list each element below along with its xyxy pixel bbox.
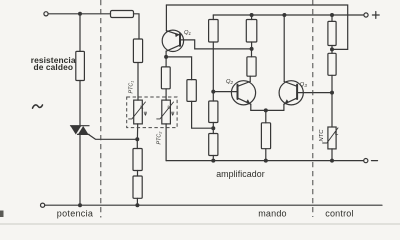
transistor Q3 (279, 81, 332, 105)
wire R7 to + rail (251, 15, 253, 20)
node common emitter (264, 108, 268, 112)
node below R8 (211, 126, 215, 130)
resistor R5 (187, 80, 196, 102)
resistor R7b collector load (247, 57, 256, 76)
svg-text:de caldeo: de caldeo (34, 62, 74, 72)
svg-text:Q1: Q1 (184, 30, 192, 36)
wire gate node down (136, 139, 138, 148)
plus sign (372, 12, 379, 19)
node gate junction (135, 137, 139, 141)
wire R3-R4 (137, 171, 139, 177)
wire resistor to PTC2 (165, 89, 167, 100)
svg-text:PTC1: PTC1 (129, 81, 135, 94)
wire PTC1 to gate node (136, 124, 138, 139)
node Q3 collector on + rail (282, 13, 286, 17)
wire Q1 collector to R5 (166, 57, 192, 80)
svg-text:Q3: Q3 (300, 82, 308, 88)
terminal AC top-left (44, 12, 48, 16)
svg-text:amplificador: amplificador (216, 169, 265, 179)
wire Q2 emitter down (250, 104, 252, 110)
label t-degree PTC2 (166, 105, 174, 116)
node junction top-left (78, 12, 82, 16)
wire Q1 base (180, 40, 252, 49)
node NTC on inner rail (330, 159, 334, 163)
wire top rail (166, 5, 347, 49)
resistor R12 (328, 53, 336, 75)
terminal plus (364, 13, 368, 17)
wire R4 to bottom rail (136, 198, 138, 205)
wire NTC to inner rail (331, 149, 333, 161)
resistor R7 upper divider (246, 20, 256, 43)
wire R10 to inner rail (265, 149, 267, 161)
node R11 on + rail (330, 13, 334, 17)
node divider chain on bottom rail (135, 203, 139, 207)
page edge smudge left (0, 211, 4, 218)
label resistencia de caldeo (31, 55, 76, 72)
triac (70, 126, 89, 135)
wire R11 to R12 (331, 46, 333, 54)
wire inner rail (166, 160, 364, 162)
resistor R6 top of divider (209, 20, 219, 43)
transistor Q1 (162, 30, 183, 51)
node Q2 base (211, 90, 215, 94)
wire to R10 (265, 110, 267, 122)
wire R8 to node (212, 123, 214, 134)
transistor Q2 (213, 81, 255, 105)
svg-text:Q2: Q2 (226, 79, 234, 85)
wire R11 to + rail (331, 15, 333, 21)
wire + rail (213, 14, 364, 16)
wire Q2 collector (249, 76, 251, 81)
wire R8 top (212, 92, 214, 101)
minus sign (372, 160, 378, 162)
thermistor NTC (323, 127, 338, 149)
wire R2 to PTC1 (137, 63, 139, 101)
wire PTC2 to inner rail (165, 124, 167, 161)
wire R7b to divider node (251, 49, 253, 57)
page edge line bottom (0, 223, 400, 225)
wire heater resistor to triac (79, 81, 81, 126)
wire R6 to Q2 base node (212, 42, 214, 92)
wire top-left AC line (48, 13, 110, 15)
wire Q1 collector node down (165, 57, 167, 67)
dashed box PTC pair (127, 97, 177, 128)
resistor R9 (209, 134, 218, 156)
node R10 on inner rail (264, 159, 268, 163)
terminal AC bottom-left (41, 203, 45, 207)
resistor R11 (328, 21, 336, 45)
thermistor PTC1 (129, 100, 146, 124)
resistor resistencia de caldeo (76, 51, 85, 80)
svg-text:mando: mando (258, 209, 287, 219)
wire rail corner into R6 (212, 15, 214, 20)
divider dashed mando/control (312, 0, 314, 217)
wire R9 to inner rail (212, 156, 214, 161)
node Q3 base to NTC line (330, 91, 334, 95)
wire Q1 emitter up (165, 5, 167, 31)
resistor above PTC2 (161, 67, 170, 89)
resistor R2 (133, 39, 142, 63)
svg-text:NTC: NTC (319, 129, 325, 142)
node R7 on + rail (250, 13, 254, 17)
wire Q1 collector down (165, 51, 167, 57)
node triac on bottom rail (78, 203, 82, 207)
node R11-R12 junction (330, 47, 334, 51)
node Q1 collector junction (164, 55, 168, 59)
label AC tilde (33, 105, 43, 108)
wire Q3 emitter down (283, 104, 285, 110)
wire bottom rail (45, 204, 382, 206)
thermistor PTC2 (157, 100, 174, 124)
wire triac gate (89, 135, 138, 140)
wire R5 to node (192, 101, 214, 128)
wire R12 to NTC (331, 75, 333, 127)
resistor R3 (133, 149, 142, 171)
svg-text:potencia: potencia (57, 209, 93, 219)
label t-degree PTC1 (139, 105, 147, 116)
wire R1 to R2 (134, 14, 140, 39)
svg-text:control: control (325, 209, 353, 219)
svg-text:PTC2: PTC2 (157, 131, 163, 145)
divider dashed potencia/mando (100, 0, 102, 218)
wire down to heater resistor (79, 14, 81, 52)
terminal minus (364, 159, 368, 163)
resistor R10 emitter (261, 123, 270, 149)
wire Q3 collector (283, 15, 285, 82)
resistor R1 top horizontal (111, 11, 134, 18)
node R9 on inner rail (211, 159, 215, 163)
node R6/R7 divider junction (250, 47, 254, 51)
resistor R8 (209, 101, 218, 123)
wire common emitter (251, 109, 284, 111)
wire R7 to node (251, 42, 253, 49)
wire triac to bottom rail (79, 134, 81, 205)
resistor R4 (133, 176, 142, 198)
